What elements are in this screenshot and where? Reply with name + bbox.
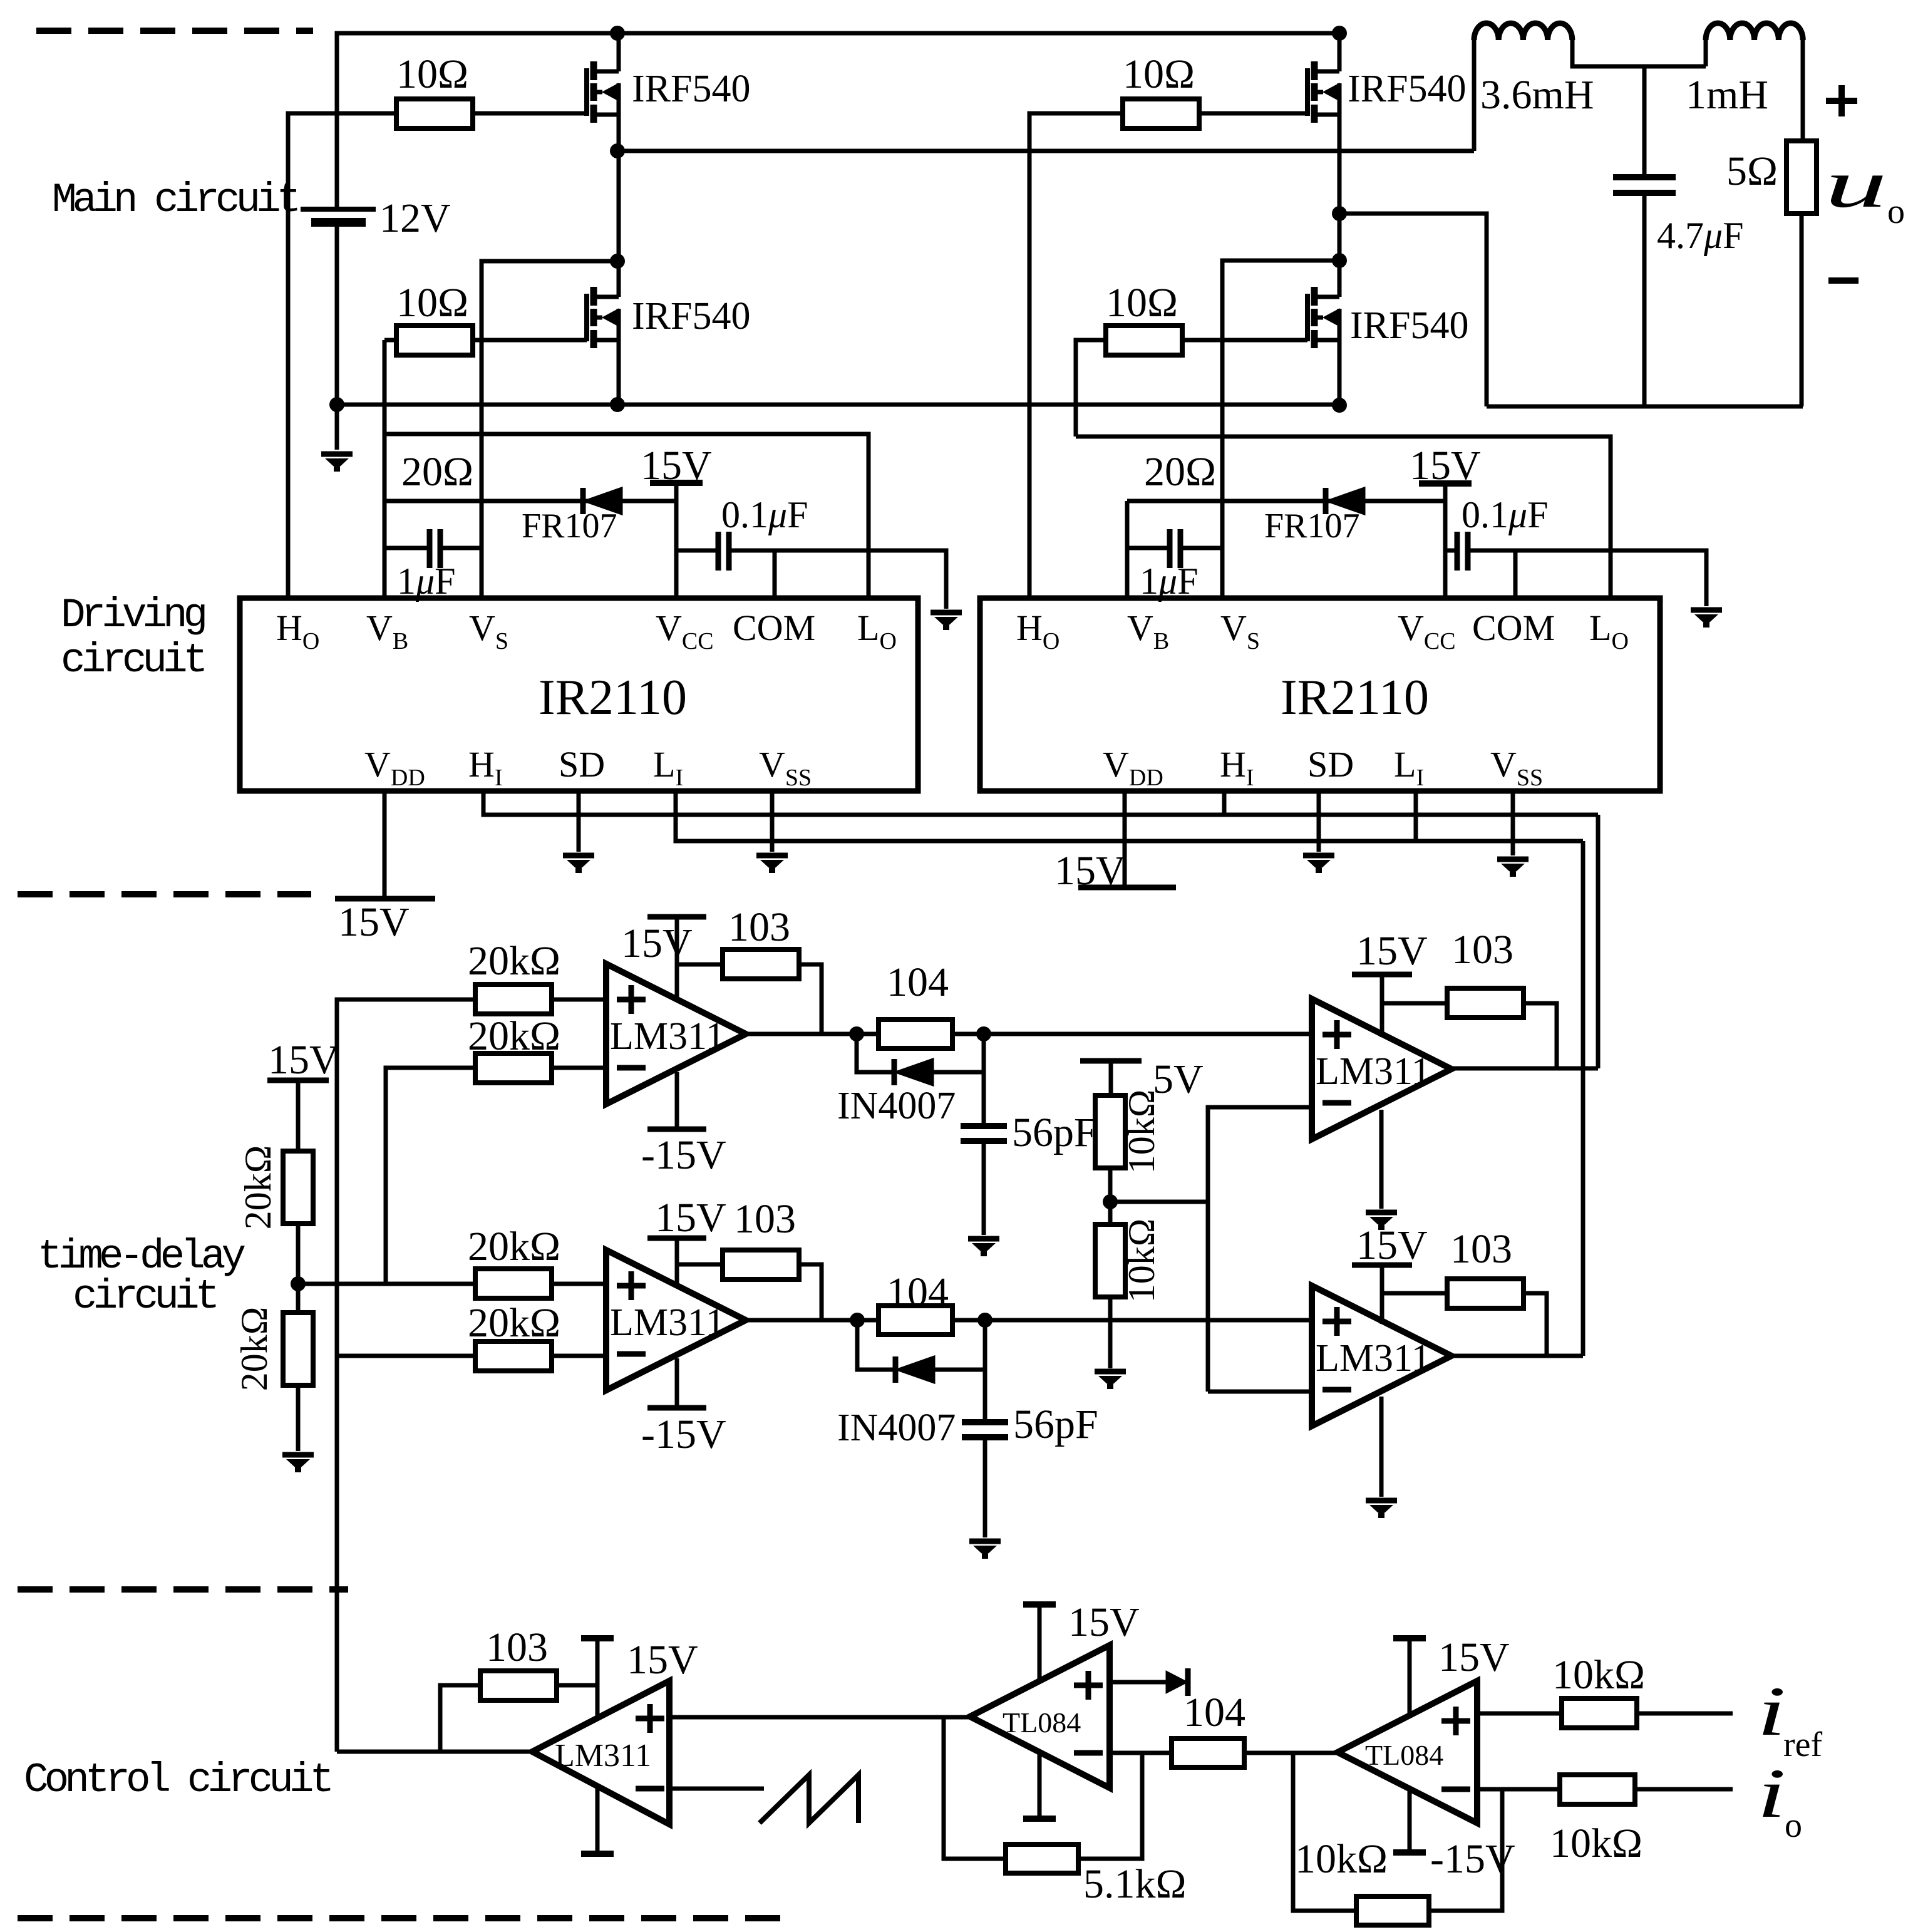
svg-text:15V: 15V (1438, 1635, 1510, 1680)
svg-text:103: 103 (1451, 927, 1513, 973)
wire: M4 drain from midpoint (1338, 261, 1342, 297)
wire: D3 anode to node B (933, 1070, 984, 1075)
svg-text:1μF: 1μF (397, 560, 456, 602)
svg-text:15V: 15V (1356, 1222, 1428, 1268)
wire: L-line riser down to U6 output (1581, 841, 1585, 1356)
wire: R8 to U3 plus (552, 998, 606, 1002)
wire: U8 - input to feedback corner (1110, 1751, 1172, 1755)
svg-text:IR2110: IR2110 (1281, 670, 1429, 725)
label: output + polarity (1826, 85, 1857, 116)
svg-text:10Ω: 10Ω (1123, 51, 1195, 97)
wire: U6 15V stub (1380, 1265, 1384, 1324)
resistor R11 104 (U3 output series) (879, 1020, 952, 1048)
transistor Q1 IRF540 (high side left) (587, 61, 619, 123)
svg-text:IN4007: IN4007 (837, 1085, 956, 1127)
node: left midpoint / M2 drain junction (610, 254, 625, 269)
wire: output return rail (1487, 405, 1803, 409)
power symbol: 15V bar (U1 V_DD) (335, 896, 435, 902)
wire: R12 bottom to mid node (1108, 1168, 1113, 1225)
wire: U7 minus input to sawtooth (669, 1787, 764, 1791)
wire: H_O riser to R1 left terminal (288, 113, 396, 598)
power symbol: 5V bar (10k divider) (1080, 1058, 1142, 1064)
ground: U5 ground (1366, 1212, 1397, 1227)
node: delay node B2 (977, 1313, 993, 1328)
wire: M3 source down to right midpoint (1338, 115, 1342, 261)
diode D4 IN4007 (lower) (895, 1356, 934, 1383)
svg-text:56pF: 56pF (1012, 1110, 1097, 1155)
wire: U2 SD riser to ground (1317, 791, 1321, 852)
wire: U5 ground stub (1379, 1110, 1384, 1209)
op-amp U9 TL084 (points left) body (1338, 1681, 1477, 1823)
marker: U8 + input (1074, 1671, 1103, 1700)
wire: U2 bootstrap line 20ohm/FR107 to 15V (1127, 499, 1445, 504)
svg-text:COM: COM (733, 607, 815, 648)
battery 12V negative plate (short) (311, 218, 366, 227)
wire: divider mid to U4+ and U3- tap (298, 1282, 477, 1286)
wire: R4 left terminal to right L_O return (1076, 340, 1106, 437)
wire: R22 to U9 output tip (1244, 1751, 1338, 1755)
svg-text:104: 104 (887, 1269, 949, 1315)
wire: R13 bottom to ground (1108, 1297, 1113, 1368)
power symbol: 15V bar (U3) (647, 914, 706, 920)
svg-text:15V: 15V (641, 443, 712, 488)
svg-text:-15V: -15V (641, 1412, 726, 1457)
wire: M3 drain from top rail (1338, 33, 1342, 71)
svg-text:15V: 15V (1068, 1599, 1140, 1645)
capacitor C1 4.7uF top plate (1613, 174, 1676, 180)
wire: U9 15V stub (1408, 1638, 1412, 1717)
wire: U2 L_I riser (1414, 791, 1418, 841)
wire: U2 V_CC riser (1443, 483, 1448, 598)
power symbol: 15V bar (U4) (647, 1236, 706, 1241)
capacitor C7 56pF plates (962, 1422, 1008, 1437)
node: right midpoint B (M3 source) (1332, 206, 1347, 221)
wire: U9 negative supply stub (1408, 1788, 1412, 1852)
wire: battery negative down to bottom rail and ground (335, 222, 339, 450)
svg-text:0.1μF: 0.1μF (1462, 494, 1549, 535)
svg-text:circuit: circuit (61, 637, 204, 684)
wire: U9 - input wire (1477, 1787, 1560, 1792)
wire: U2 V_SS riser to ground (1511, 791, 1515, 855)
capacitor C1 4.7uF bottom plate (1613, 190, 1676, 196)
ground: U2 SD ground (1303, 855, 1334, 870)
capacitor C2 1uF right stub to V_S riser (440, 546, 482, 550)
wire: L2 left terminal down to filter node (1704, 40, 1708, 66)
capacitor C6 56pF plates (961, 1126, 1007, 1141)
wire: U1 H_I riser and H line (483, 791, 1598, 815)
node: top rail / M3 drain junction (1332, 26, 1347, 41)
wire: U7 supply rail vertical (596, 1638, 600, 1718)
wire: C6 to ground (982, 1141, 986, 1235)
wire: U8 negative supply stub (1038, 1752, 1042, 1819)
wire: U7 plus input from TL084 output (669, 1715, 970, 1720)
wire: U4 minus wire from PWM riser (337, 1354, 477, 1358)
wire: filter cap bottom to return rail (1642, 193, 1647, 406)
wire: U8 + input stub (1110, 1680, 1180, 1685)
svg-text:20kΩ: 20kΩ (468, 1300, 560, 1346)
svg-text:15V: 15V (655, 1195, 726, 1241)
svg-text:103: 103 (486, 1625, 548, 1670)
svg-text:u: u (1825, 147, 1887, 222)
wire: R7 bottom to ground (296, 1385, 301, 1451)
svg-text:COM: COM (1472, 607, 1555, 648)
wire: U5 output to H riser (1451, 1067, 1598, 1071)
svg-text:IR2110: IR2110 (539, 670, 687, 725)
wire: R19 to U6 output riser (1522, 1293, 1547, 1356)
wire: U7 negative supply stub (596, 1786, 600, 1854)
node: delay node B (976, 1026, 991, 1041)
svg-text:10Ω: 10Ω (1106, 280, 1178, 326)
svg-text:Main circuit: Main circuit (52, 177, 297, 224)
capacitor C2 1uF plates (430, 529, 440, 568)
connector arrow at U8 + input (1166, 1668, 1188, 1696)
wire: V_S sense from left midpoint (482, 261, 617, 598)
svg-text:i: i (1757, 1673, 1786, 1750)
ground: U1 SD ground (563, 855, 594, 870)
svg-text:LM311: LM311 (610, 1015, 725, 1058)
wire: U3 minus branch riser (386, 1068, 477, 1284)
resistor R23 10k (i_ref input) (1562, 1698, 1637, 1728)
wire: U1 V_SS riser to ground (770, 791, 775, 852)
svg-text:Driving: Driving (61, 592, 205, 639)
svg-text:10kΩ: 10kΩ (1121, 1090, 1162, 1174)
wire: U7 output wire (337, 1750, 532, 1754)
svg-text:5.1kΩ: 5.1kΩ (1083, 1861, 1187, 1907)
marker: U9 - input (1441, 1787, 1470, 1792)
power symbol: 15V bar (U7 top) (581, 1635, 614, 1641)
comparator U7 LM311 (control, points left) body (532, 1681, 669, 1824)
svg-text:104: 104 (1183, 1690, 1245, 1735)
wire: U1 SD riser to ground (577, 791, 581, 852)
wire: U1 COM riser (773, 550, 777, 598)
wire: U1 V_B riser (from R2 down to V_B pin) (383, 340, 387, 598)
marker: U9 + input (1441, 1707, 1470, 1735)
wire: R2 left terminal to V_B riser (384, 338, 396, 343)
wire: U7 feedback tap (440, 1685, 482, 1752)
marker: U7 - input (636, 1786, 664, 1792)
resistor R3 10ohm (M3 gate) (1123, 99, 1199, 128)
ground: U2 COM ground (1691, 610, 1722, 625)
wire: R3 right terminal to M3 gate (1199, 111, 1307, 116)
svg-text:IRF540: IRF540 (1350, 304, 1468, 347)
power symbol: 15V bar (U6) (1352, 1263, 1412, 1268)
wire: right V_S sense wire (1222, 261, 1339, 598)
svg-text:o: o (1785, 1806, 1802, 1845)
capacitor C4 1uF right stub to V_S riser (1180, 546, 1222, 550)
wire: M1 source down to left midpoint (617, 115, 621, 261)
wire: M2 drain from midpoint (617, 261, 621, 297)
svg-text:20kΩ: 20kΩ (468, 1224, 560, 1269)
wire: U6 output to L riser (1451, 1354, 1583, 1358)
wire: R1 right terminal to M1 gate (473, 111, 587, 116)
wire: U1 L_O loop (V_B riser to L_O pin) (384, 434, 869, 598)
node: U3 output / diode tap (849, 1026, 864, 1041)
node: left divider midpoint (291, 1276, 306, 1291)
comparator U3 LM311 (upper left) (606, 964, 746, 1104)
ground: U1 V_SS ground (756, 855, 788, 870)
svg-text:20kΩ: 20kΩ (468, 1013, 560, 1059)
inductor L2 1mH (1706, 23, 1803, 40)
capacitor C5 0.1uF plates (1457, 532, 1468, 571)
marker: U8 - input (1074, 1750, 1103, 1756)
wire: U1 V_CC riser (674, 483, 679, 598)
wire: node B down to C6 (982, 1034, 986, 1125)
wire: R9 to U3 minus (552, 1066, 606, 1070)
capacitor C3 0.1uF left stub from Vcc riser (676, 549, 718, 553)
svg-text:3.6mH: 3.6mH (1480, 72, 1594, 118)
wire: right H_O riser to R3 left terminal (1029, 113, 1123, 598)
resistor R4 10ohm (M4 gate) (1106, 326, 1182, 355)
wire: R17 to U4 output riser (797, 1264, 822, 1320)
wire: diode D4 branch from U4 output (857, 1320, 895, 1370)
transistor Q3 IRF540 (high side right) (1307, 61, 1339, 123)
svg-text:i: i (1757, 1755, 1786, 1832)
wire: U2 V_DD riser to 15V (1123, 791, 1127, 887)
svg-text:15V: 15V (1054, 848, 1126, 894)
resistor R16 20k (U4 - input) (475, 1341, 552, 1371)
ground: U2 V_SS ground (1497, 859, 1529, 874)
wire: U4 output line to U6 plus (746, 1318, 1312, 1323)
capacitor C4 1uF left stub (1127, 546, 1170, 550)
wire: R23 to i_ref terminal (1637, 1712, 1733, 1716)
svg-text:IRF540: IRF540 (632, 68, 750, 110)
wire: L1 left terminal down to midpoint rail (1472, 40, 1477, 151)
power symbol: 15V bar (left divider) (267, 1078, 329, 1083)
label: output - polarity (1828, 277, 1859, 284)
svg-text:o: o (1887, 192, 1905, 231)
ground: C7 ground (969, 1541, 1001, 1556)
wire: U1 bootstrap line 20ohm/FR107 to 15V (384, 499, 676, 504)
boundary dashed line 2 (main/driving boundary) (18, 891, 311, 897)
wire: U6 pullup line (1382, 1291, 1449, 1296)
resistor R19 103 (U6 pullup) (1447, 1279, 1524, 1308)
wire: diode D3 branch from U3 output (857, 1034, 894, 1072)
svg-text:IN4007: IN4007 (837, 1407, 956, 1449)
resistor R9 20k (U3 - input) (475, 1053, 552, 1083)
wire: U2 COM riser (1513, 550, 1518, 598)
wire: C7 to ground (983, 1437, 987, 1537)
svg-text:5Ω: 5Ω (1726, 148, 1778, 194)
node: 10k divider midpoint (1103, 1194, 1118, 1209)
wire: U6 ground stub (1379, 1397, 1384, 1497)
wire: PWM node to U3 plus input (337, 1000, 477, 1356)
svg-text:10kΩ: 10kΩ (1552, 1652, 1645, 1698)
svg-text:15V: 15V (1410, 443, 1481, 488)
diode D2 FR107 (right bootstrap) (1326, 488, 1364, 514)
svg-text:20Ω: 20Ω (1144, 449, 1216, 495)
wire: U3 output line to U5 plus (746, 1032, 1312, 1036)
resistor R15 20k (U4 + input) (475, 1269, 552, 1298)
ground: left divider ground (282, 1455, 314, 1470)
wire: U2 L_O loop (R4 return to L_O pin) (1076, 437, 1611, 598)
wire: R15 to U4 plus (552, 1282, 606, 1286)
svg-text:15V: 15V (621, 921, 693, 966)
boundary dashed line 3 (driving/time-delay boundary) (18, 1586, 348, 1593)
ground: main circuit power ground (321, 454, 353, 469)
svg-text:20Ω: 20Ω (401, 449, 473, 495)
resistor R10 103 (U3 pullup) (723, 949, 799, 979)
wire: U2 V_B riser (1125, 501, 1130, 598)
svg-text:LM311: LM311 (555, 1738, 651, 1774)
comparator U4 LM311 (lower left) (606, 1250, 746, 1390)
power symbol: 15V bar (U9 top) (1393, 1635, 1426, 1641)
resistor R2 10ohm (M2 gate) (396, 326, 473, 355)
comparator U6 LM311 (lower right) (1312, 1286, 1451, 1426)
svg-text:IRF540: IRF540 (632, 295, 750, 338)
transistor Q2 IRF540 (low side left) (587, 287, 619, 348)
wire: U9 + input to R23 (1477, 1712, 1562, 1716)
node: battery- / bottom rail junction (329, 397, 344, 412)
svg-text:1μF: 1μF (1140, 560, 1199, 602)
wire: R6 bottom to mid node (296, 1224, 301, 1313)
node: U4 output / diode tap (850, 1313, 865, 1328)
svg-text:15V: 15V (1356, 928, 1428, 974)
wire: node B2 down to C7 (983, 1320, 987, 1422)
svg-text:10kΩ: 10kΩ (1295, 1836, 1388, 1882)
svg-text:LM311: LM311 (1316, 1337, 1431, 1380)
resistor R6 20k (divider upper) (283, 1151, 313, 1224)
power symbol: -15V bar (U9) (1393, 1849, 1426, 1856)
svg-text:10Ω: 10Ω (396, 51, 468, 97)
wire: U4 15V stub (675, 1238, 679, 1288)
capacitor C3 0.1uF plates (718, 532, 729, 571)
wire: U4 plus input through R15 (386, 1282, 477, 1286)
wire: U4 pullup line (677, 1263, 724, 1267)
svg-text:20kΩ: 20kΩ (468, 938, 560, 984)
marker: U7 + input (636, 1704, 664, 1733)
inductor L1 3.6mH (1474, 23, 1572, 40)
wire: U1 L_I riser and L line (676, 791, 1583, 841)
wire: U1 V_DD riser to 15V (383, 791, 387, 899)
svg-text:TL084: TL084 (1003, 1707, 1081, 1738)
wire: M1 drain from top rail (617, 33, 621, 71)
svg-text:20kΩ: 20kΩ (237, 1145, 279, 1230)
power symbol: -15V bar (U4) (647, 1405, 706, 1411)
wire: U8 15V stub (1038, 1604, 1042, 1681)
svg-text:15V: 15V (627, 1637, 698, 1683)
power symbol: -15V bar (U3) (647, 1127, 706, 1132)
node: top rail / M1 drain junction (610, 26, 625, 41)
IC U1 IR2110 (left) body (240, 598, 918, 791)
resistor R1 10ohm (M1 gate) (396, 99, 473, 128)
power symbol: 15V bar (U5) (1352, 972, 1412, 978)
svg-text:104: 104 (887, 959, 949, 1005)
power symbol: 15V bar (U8 top) (1023, 1601, 1056, 1608)
wire: R16 to U4 minus (552, 1354, 606, 1358)
svg-text:15V: 15V (268, 1037, 339, 1083)
resistor R20 103 (U7 feedback) (480, 1671, 557, 1700)
svg-text:10kΩ: 10kΩ (1121, 1219, 1162, 1303)
svg-text:4.7μF: 4.7μF (1657, 215, 1744, 256)
op-amp U8 TL084 (points left) body (970, 1645, 1110, 1788)
power symbol: +15V bar (U2 bootstrap supply) (1419, 480, 1472, 487)
node: left midpoint A (M1 source / rail) (610, 143, 625, 158)
resistor R22 104 (U8- to U9 out) (1172, 1738, 1244, 1767)
wire: R21 to U8 output riser (944, 1717, 1006, 1859)
svg-text:10kΩ: 10kΩ (1550, 1821, 1642, 1866)
wire: U4 negative supply stub (675, 1358, 679, 1408)
wire: L2 right terminal down to load (1801, 40, 1805, 141)
power symbol: 15V bar (U2 V_DD) (1078, 885, 1176, 891)
capacitor C4 1uF plates (1170, 529, 1180, 568)
svg-text:SD: SD (559, 744, 605, 785)
resistor R17 103 (U4 pullup) (723, 1250, 799, 1279)
svg-text:SD: SD (1307, 744, 1354, 785)
capacitor C3 0.1uF right stub to COM and ground (729, 550, 946, 609)
resistor R5 5ohm load (1787, 141, 1817, 214)
wire: R14 to U5 output riser (1522, 1003, 1557, 1068)
wire: 5V to R12 (1109, 1061, 1113, 1095)
capacitor C5 0.1uF right stub to COM and ground (1468, 550, 1706, 606)
power symbol: U7 negative supply bar (581, 1851, 614, 1857)
resistor R25 10k (i_o input) (1560, 1775, 1635, 1804)
node: M4 source / bottom rail junction (1332, 398, 1347, 413)
resistor R24 10k (U9 feedback) (1356, 1896, 1429, 1925)
ground: 10k divider ground (1095, 1372, 1126, 1387)
svg-text:0.1μF: 0.1μF (721, 494, 808, 535)
ground: U6 ground (1366, 1501, 1397, 1516)
wire: R10 to U3 output riser (797, 964, 822, 1034)
svg-text:103: 103 (728, 904, 790, 950)
wire: right midpoint to output return corner (1339, 214, 1487, 406)
resistor R13 10k (divider lower) (1095, 1224, 1125, 1297)
wire: top supply rail from battery+ to right leg (337, 33, 1339, 209)
svg-text:circuit: circuit (73, 1273, 216, 1320)
wire: U5 15V stub (1380, 974, 1384, 1037)
wire: U3 negative supply stub (675, 1072, 679, 1129)
wire: U8 feedback loop via 5.1k (1078, 1753, 1142, 1859)
node: M2 source / bottom rail junction (610, 397, 625, 412)
transistor Q4 IRF540 (low side right) (1307, 287, 1339, 348)
svg-text:20kΩ: 20kΩ (234, 1307, 275, 1392)
battery 12V positive plate (long) (301, 207, 376, 212)
svg-text:TL084: TL084 (1365, 1739, 1443, 1771)
wire: M4 source to bottom rail (1338, 340, 1342, 406)
capacitor C5 0.1uF left stub (1445, 549, 1457, 553)
wire: U9 feedback loop via 10k (1429, 1789, 1502, 1911)
svg-text:-15V: -15V (641, 1132, 726, 1178)
resistor R8 20k (U3 + input) (475, 984, 552, 1014)
svg-text:12V: 12V (379, 195, 451, 241)
wire: divider mid to U5 minus and U6 minus (1110, 1107, 1312, 1392)
resistor R12 10k (divider upper) (1095, 1095, 1125, 1168)
diode D1 FR107 (left bootstrap) (583, 488, 622, 514)
wire: R20 to 15V rail (557, 1683, 597, 1688)
svg-text:Control circuit: Control circuit (24, 1757, 330, 1804)
svg-text:ref: ref (1783, 1725, 1823, 1764)
svg-text:LM311: LM311 (1316, 1050, 1431, 1093)
svg-text:10Ω: 10Ω (396, 280, 468, 326)
IC U2 IR2110 (right) body (980, 598, 1660, 791)
comparator U5 LM311 (upper right) (1312, 999, 1451, 1139)
resistor R14 103 (U5 pullup) (1447, 988, 1524, 1018)
wire: R4 right terminal to M4 gate (1182, 338, 1307, 343)
wire: L1 right terminal to filter node (1572, 40, 1706, 66)
wire: U3 15V stub (675, 917, 679, 1002)
resistor R21 5.1k (U8 feedback) (1006, 1844, 1078, 1873)
svg-text:15V: 15V (338, 899, 410, 945)
wire: U3 pullup line (677, 963, 724, 967)
wire: U2 H_I riser (1222, 791, 1227, 815)
wire: M2 source to bottom rail (617, 340, 621, 405)
svg-text:56pF: 56pF (1013, 1402, 1098, 1447)
ground: C6 ground (968, 1239, 999, 1254)
wire: R2 right terminal to M2 gate (473, 338, 587, 343)
wire: filter cap top connection (1642, 66, 1647, 177)
svg-text:FR107: FR107 (522, 507, 617, 545)
wire: D4 anode to node B2 (934, 1368, 985, 1372)
capacitor C2 1uF left stub (384, 546, 430, 550)
